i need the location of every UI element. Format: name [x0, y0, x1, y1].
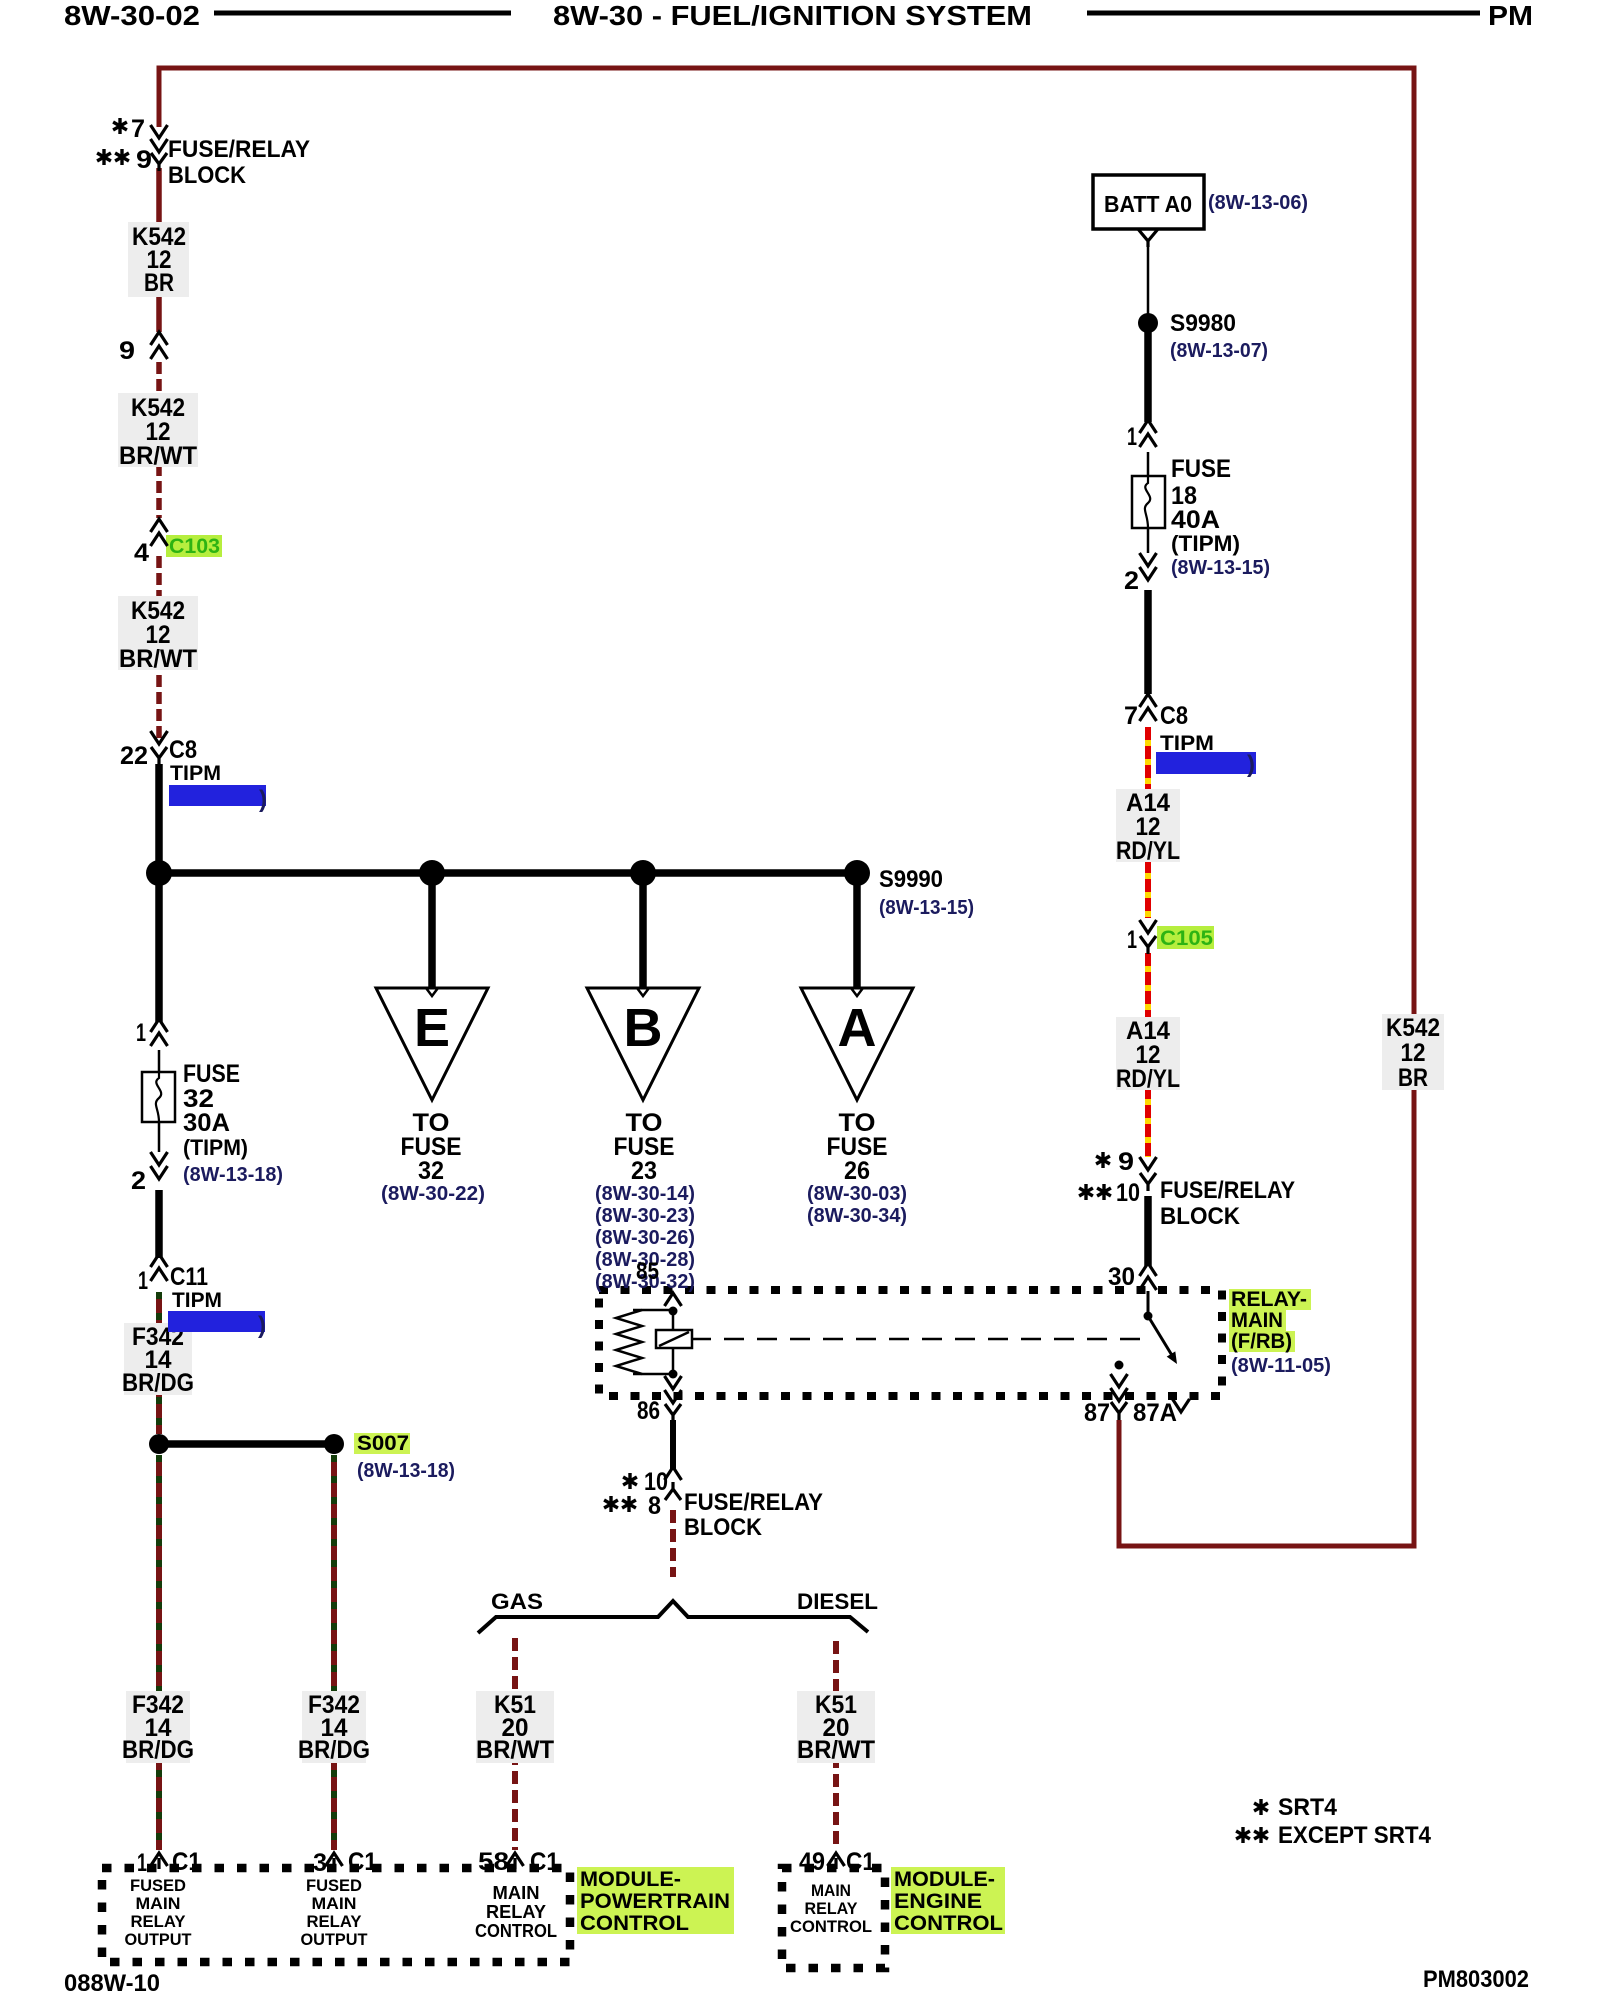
svg-text:BR: BR — [1398, 1064, 1428, 1092]
svg-text:BR/WT: BR/WT — [476, 1736, 554, 1764]
svg-text:C103: C103 — [169, 535, 220, 558]
svg-text:23: 23 — [631, 1157, 657, 1185]
svg-text:FUSE: FUSE — [1171, 455, 1231, 483]
svg-text:BR: BR — [144, 269, 174, 297]
svg-text:PM: PM — [1488, 0, 1533, 31]
svg-text:1: 1 — [137, 1849, 147, 1877]
svg-text:BR/DG: BR/DG — [298, 1736, 370, 1764]
svg-text:(8W-30-14): (8W-30-14) — [595, 1183, 695, 1205]
svg-text:E: E — [414, 998, 450, 1058]
svg-text:RELAY: RELAY — [131, 1912, 187, 1931]
svg-text:1: 1 — [136, 1019, 146, 1047]
svg-text:8W-30 - FUEL/IGNITION SYSTEM: 8W-30 - FUEL/IGNITION SYSTEM — [553, 0, 1032, 31]
svg-text:49: 49 — [799, 1848, 825, 1876]
svg-text:C1: C1 — [846, 1848, 875, 1876]
svg-text:(8W-13-15): (8W-13-15) — [879, 897, 974, 919]
svg-text:8W-30-02: 8W-30-02 — [64, 0, 200, 31]
svg-text:K542: K542 — [1386, 1014, 1440, 1042]
svg-text:MAIN: MAIN — [811, 1881, 851, 1900]
svg-text:9: 9 — [119, 337, 135, 365]
svg-text:CONTROL: CONTROL — [894, 1912, 1003, 1935]
svg-text:(8W-30-26): (8W-30-26) — [595, 1227, 695, 1249]
svg-text:(8W-13-15): (8W-13-15) — [1171, 557, 1270, 579]
svg-text:BR/WT: BR/WT — [119, 645, 197, 673]
svg-text:10: 10 — [1116, 1179, 1140, 1207]
svg-text:(8W-11-05): (8W-11-05) — [1231, 1355, 1331, 1377]
svg-text:B: B — [624, 998, 663, 1058]
svg-text:BR/DG: BR/DG — [122, 1736, 194, 1764]
svg-text:): ) — [259, 786, 267, 813]
svg-text:FUSE/RELAY: FUSE/RELAY — [168, 136, 310, 163]
svg-text:RD/YL: RD/YL — [1116, 837, 1180, 865]
svg-text:1: 1 — [1127, 926, 1137, 954]
svg-text:BLOCK: BLOCK — [168, 162, 247, 189]
svg-text:C8: C8 — [169, 736, 197, 764]
svg-text:C11: C11 — [170, 1263, 208, 1291]
svg-text:4: 4 — [134, 539, 149, 567]
svg-text:(8W-13-18): (8W-13-18) — [357, 1460, 455, 1482]
svg-text:7: 7 — [131, 115, 145, 143]
svg-text:RELAY: RELAY — [805, 1899, 859, 1918]
svg-text:OUTPUT: OUTPUT — [301, 1930, 369, 1949]
svg-text:MAIN: MAIN — [312, 1894, 357, 1913]
svg-text:MAIN: MAIN — [493, 1883, 540, 1903]
svg-text:(8W-30-23): (8W-30-23) — [595, 1205, 695, 1227]
svg-text:(8W-13-06): (8W-13-06) — [1208, 192, 1308, 214]
svg-text:30: 30 — [1108, 1263, 1135, 1291]
svg-text:(TIPM): (TIPM) — [1171, 531, 1240, 556]
svg-text:(F/RB): (F/RB) — [1231, 1330, 1292, 1353]
svg-text:MODULE-: MODULE- — [894, 1868, 995, 1891]
svg-text:S9980: S9980 — [1170, 310, 1236, 337]
svg-text:C8: C8 — [1160, 702, 1188, 730]
svg-text:58: 58 — [478, 1848, 509, 1876]
svg-text:9: 9 — [136, 146, 152, 174]
svg-text:BLOCK: BLOCK — [684, 1514, 763, 1541]
svg-text:S9990: S9990 — [879, 866, 943, 893]
svg-text:2: 2 — [131, 1167, 146, 1195]
svg-text:87: 87 — [1084, 1399, 1110, 1427]
svg-text:87A: 87A — [1133, 1399, 1177, 1427]
svg-text:TIPM: TIPM — [172, 1289, 222, 1312]
svg-text:12: 12 — [1401, 1039, 1426, 1067]
svg-text:3: 3 — [313, 1849, 327, 1877]
svg-text:TIPM: TIPM — [1160, 732, 1214, 755]
svg-text:BLOCK: BLOCK — [1160, 1203, 1241, 1230]
svg-text:2: 2 — [1124, 567, 1139, 595]
svg-text:C1: C1 — [348, 1848, 377, 1876]
svg-text:FUSE/RELAY: FUSE/RELAY — [1160, 1177, 1295, 1204]
svg-text:(8W-30-22): (8W-30-22) — [381, 1183, 485, 1205]
svg-text:9: 9 — [1118, 1148, 1134, 1176]
svg-text:22: 22 — [120, 742, 148, 770]
svg-text:(8W-13-07): (8W-13-07) — [1170, 340, 1268, 362]
svg-text:C1: C1 — [530, 1848, 559, 1876]
svg-text:26: 26 — [844, 1157, 870, 1185]
svg-text:MAIN: MAIN — [1231, 1309, 1283, 1332]
svg-text:CONTROL: CONTROL — [475, 1921, 557, 1941]
svg-text:7: 7 — [1124, 702, 1138, 730]
svg-text:MODULE-: MODULE- — [580, 1868, 681, 1891]
svg-text:1: 1 — [1127, 423, 1137, 451]
svg-text:SRT4: SRT4 — [1278, 1794, 1338, 1821]
svg-text:OUTPUT: OUTPUT — [125, 1930, 193, 1949]
svg-text:FUSED: FUSED — [306, 1876, 362, 1895]
svg-text:BR/WT: BR/WT — [119, 442, 197, 470]
svg-text:C1: C1 — [172, 1848, 201, 1876]
svg-text:POWERTRAIN: POWERTRAIN — [580, 1890, 730, 1913]
svg-text:CONTROL: CONTROL — [790, 1917, 872, 1936]
svg-text:FUSE/RELAY: FUSE/RELAY — [684, 1489, 823, 1516]
svg-text:86: 86 — [637, 1397, 660, 1425]
svg-text:DIESEL: DIESEL — [797, 1589, 878, 1614]
svg-text:C105: C105 — [1160, 927, 1213, 950]
svg-text:): ) — [258, 1312, 266, 1339]
svg-text:85: 85 — [636, 1258, 659, 1285]
svg-text:RELAY: RELAY — [307, 1912, 363, 1931]
svg-text:32: 32 — [418, 1157, 444, 1185]
svg-text:BATT A0: BATT A0 — [1104, 191, 1192, 217]
svg-text:RD/YL: RD/YL — [1116, 1065, 1180, 1093]
svg-text:GAS: GAS — [491, 1589, 543, 1614]
svg-text:): ) — [1247, 751, 1255, 778]
svg-text:088W-10: 088W-10 — [64, 1970, 160, 1997]
svg-text:8: 8 — [648, 1492, 661, 1520]
svg-text:PM803002: PM803002 — [1423, 1966, 1529, 1993]
svg-text:RELAY-: RELAY- — [1231, 1288, 1307, 1311]
svg-text:1: 1 — [138, 1267, 148, 1295]
svg-text:(8W-30-03): (8W-30-03) — [807, 1183, 907, 1205]
svg-text:BR/DG: BR/DG — [122, 1369, 194, 1397]
svg-text:EXCEPT SRT4: EXCEPT SRT4 — [1278, 1822, 1432, 1849]
svg-text:S007: S007 — [357, 1432, 409, 1455]
svg-text:(8W-13-18): (8W-13-18) — [183, 1164, 283, 1186]
svg-text:RELAY: RELAY — [486, 1902, 546, 1922]
svg-text:40A: 40A — [1171, 506, 1220, 534]
svg-text:FUSED: FUSED — [130, 1876, 186, 1895]
svg-text:(8W-30-34): (8W-30-34) — [807, 1205, 907, 1227]
svg-text:ENGINE: ENGINE — [894, 1890, 982, 1913]
svg-text:FUSE: FUSE — [183, 1060, 240, 1088]
svg-text:CONTROL: CONTROL — [580, 1912, 689, 1935]
svg-text:BR/WT: BR/WT — [797, 1736, 875, 1764]
svg-text:(TIPM): (TIPM) — [183, 1135, 248, 1160]
svg-text:A: A — [838, 998, 877, 1058]
svg-text:MAIN: MAIN — [136, 1894, 181, 1913]
svg-text:30A: 30A — [183, 1109, 230, 1137]
svg-text:TIPM: TIPM — [170, 762, 221, 785]
